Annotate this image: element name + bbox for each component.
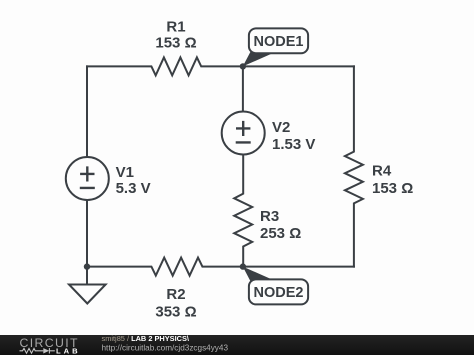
svg-text:LAB: LAB [56,347,81,355]
svg-text:253 Ω: 253 Ω [260,225,301,242]
svg-text:1.53 V: 1.53 V [272,136,315,153]
svg-text:5.3 V: 5.3 V [116,180,151,197]
svg-text:353 Ω: 353 Ω [155,303,196,320]
svg-text:153 Ω: 153 Ω [155,35,196,52]
svg-text:R2: R2 [166,286,185,303]
svg-text:R4: R4 [372,163,392,180]
svg-text:V2: V2 [272,119,290,136]
svg-text:NODE2: NODE2 [254,285,304,301]
svg-text:NODE1: NODE1 [254,34,304,50]
svg-text:http://circuitlab.com/cjd3zcgs: http://circuitlab.com/cjd3zcgs4yy43 [102,344,229,353]
svg-text:R3: R3 [260,208,279,225]
svg-text:R1: R1 [166,18,185,35]
svg-text:smitj85 / LAB 2 PHYSICS\: smitj85 / LAB 2 PHYSICS\ [102,334,189,343]
svg-text:153 Ω: 153 Ω [372,180,413,197]
svg-text:V1: V1 [116,164,134,181]
